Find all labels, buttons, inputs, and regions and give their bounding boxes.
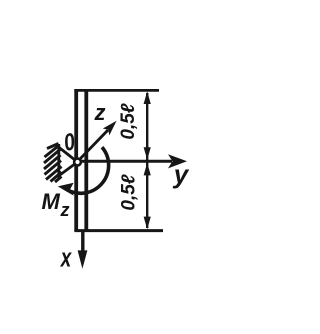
y axis wire [80,160,172,163]
support leg upper [59,147,78,162]
wall face line [57,144,60,178]
dim arrow up (mid lower) [144,163,151,176]
svg-text:0,5ℓ: 0,5ℓ [118,103,139,139]
support leg lower [59,162,78,176]
moment arc arrowhead [58,183,74,196]
x axis wire [81,231,84,252]
dim arrow up (top) [144,91,151,104]
bar right edge [84,90,88,230]
dimension line vertical [146,93,148,228]
svg-text:x: x [59,242,72,272]
dim arrow down (bottom) [144,217,151,230]
wall hatching [44,144,62,183]
svg-text:M: M [42,189,61,214]
dim arrow down (mid upper) [144,147,151,160]
node O circle [74,159,81,166]
z axis arrowhead [103,121,117,136]
svg-text:y: y [172,159,190,189]
svg-text:z: z [60,200,70,220]
svg-text:z: z [94,100,106,125]
y axis arrowhead [168,154,187,168]
bar bottom line / extension [74,229,163,232]
moment arc Mz [64,147,109,193]
z axis wire [78,130,108,161]
bar top line / extension [74,89,159,92]
svg-text:0,5ℓ: 0,5ℓ [119,174,140,210]
bar left edge [74,89,78,231]
x axis arrowhead [78,250,88,268]
